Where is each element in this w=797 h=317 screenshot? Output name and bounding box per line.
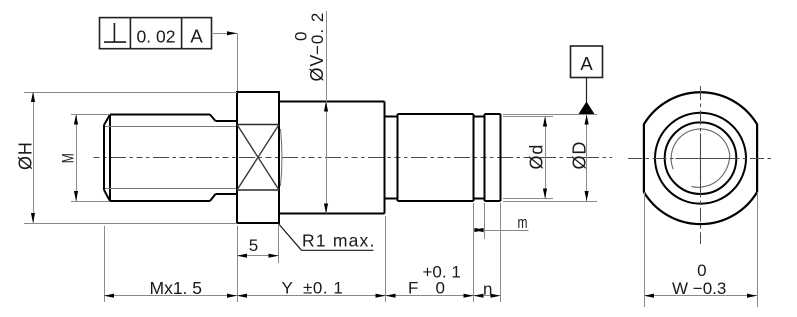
bottom dimension line [104, 295, 501, 297]
relief neck [385, 116, 398, 118]
bottom extension lines [104, 226, 106, 302]
phid dimension line [545, 117, 547, 199]
5 dimension line [237, 255, 279, 257]
flange flat cross mark [237, 125, 279, 191]
flange flat edges [237, 124, 279, 126]
thread chamfer edge [109, 115, 111, 202]
thread runout [210, 115, 216, 122]
thread section left face [103, 125, 105, 190]
svg-text:R1 max.: R1 max. [302, 231, 376, 251]
svg-text:A: A [580, 53, 593, 74]
phiD dimension line [586, 115, 588, 202]
phiV dimension line [326, 11, 328, 214]
wire centerline (side view axis) [94, 157, 613, 159]
flange outline [237, 92, 279, 223]
svg-text:A: A [190, 26, 203, 47]
svg-text:Mx1. 5: Mx1. 5 [150, 278, 203, 298]
svg-text:ØV: ØV [307, 54, 327, 82]
svg-text:ØD: ØD [570, 141, 590, 170]
phid cylinder outline [398, 113, 474, 115]
thread section major diameter outline [110, 114, 210, 116]
datum A box [571, 46, 603, 78]
svg-text:5: 5 [249, 236, 258, 255]
M dimension line [76, 115, 78, 202]
M extension lines [71, 114, 110, 116]
svg-text:M: M [60, 153, 78, 163]
end land and end face [485, 113, 501, 115]
phiD extension lines [503, 114, 597, 116]
svg-text:n: n [483, 279, 492, 298]
W extension lines [644, 192, 646, 307]
groove faces [473, 114, 475, 201]
W dimension line [644, 295, 757, 297]
fillet R1 arc [281, 129, 282, 186]
phiV cylinder outline [279, 101, 385, 103]
svg-text:Y: Y [282, 279, 293, 298]
svg-text:0. 02: 0. 02 [137, 26, 176, 46]
svg-text:0: 0 [292, 32, 311, 41]
svg-text:W −0.3: W −0.3 [672, 279, 726, 298]
end view thread arc (partial thin circle) [671, 129, 730, 187]
svg-text:±0. 1: ±0. 1 [303, 279, 343, 298]
end view center cross [676, 158, 726, 160]
m dimension line [474, 230, 529, 232]
thread minor diameter lines [105, 126, 237, 128]
svg-text:F: F [408, 279, 418, 298]
svg-text:+0. 1: +0. 1 [423, 262, 461, 281]
svg-text:−0. 2: −0. 2 [308, 12, 327, 55]
feature control frame box [100, 18, 212, 49]
svg-text:Ød: Ød [527, 144, 547, 170]
svg-text:m: m [518, 214, 528, 232]
perpendicularity symbol [113, 23, 115, 42]
end view circle phid [655, 113, 746, 204]
svg-text:0: 0 [697, 261, 706, 280]
datum leader and triangle [586, 78, 588, 103]
m extension line [484, 203, 486, 239]
end view inner circle [665, 122, 737, 194]
phiH extension lines [24, 92, 237, 94]
leader from frame to flange face [212, 33, 238, 35]
phid extension lines [503, 116, 553, 118]
svg-text:ØH: ØH [16, 141, 36, 170]
phiH dimension line [33, 92, 35, 223]
end view outer profile with flats [644, 92, 757, 224]
svg-text:0: 0 [436, 279, 445, 298]
end view centerlines [628, 158, 676, 160]
